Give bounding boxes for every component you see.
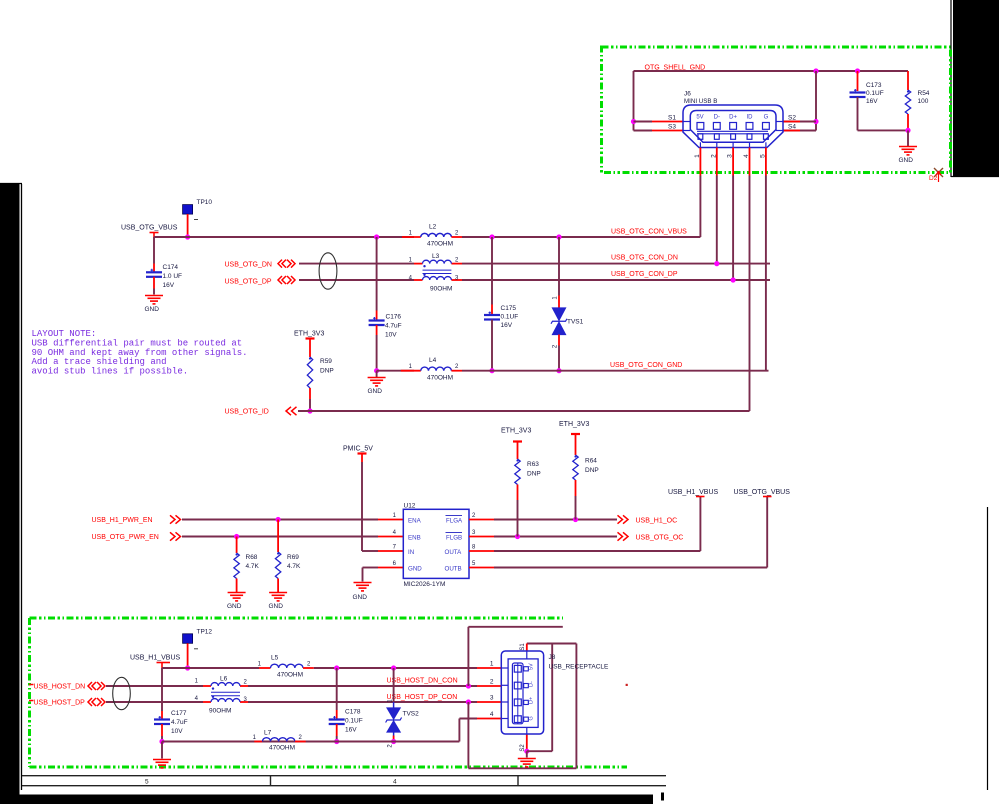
junction R63 on FLGB row bbox=[515, 534, 520, 539]
svg-text:L5: L5 bbox=[271, 655, 279, 662]
wire C173 bottom bbox=[857, 97, 859, 130]
svg-text:MIC2026-1YM: MIC2026-1YM bbox=[404, 581, 446, 588]
svg-text:S1: S1 bbox=[668, 115, 676, 122]
svg-text:J6: J6 bbox=[684, 91, 691, 98]
svg-text:USB_OTG_CON_GND: USB_OTG_CON_GND bbox=[610, 362, 682, 369]
junction C176 GND L4 bbox=[374, 368, 379, 373]
wire OTG_SHELL_GND horizontal bbox=[634, 70, 909, 72]
wire to J8 pin4 bbox=[459, 718, 477, 720]
stub USB_OTG_VBUS anchor bbox=[153, 233, 155, 238]
capacitor C176 bbox=[369, 321, 385, 326]
wire USB_OTG_ID row bbox=[298, 410, 750, 412]
svg-text:GND: GND bbox=[145, 306, 160, 313]
junction C176 column on VBUS row bbox=[374, 234, 379, 239]
svg-text:4.7uF: 4.7uF bbox=[171, 719, 188, 726]
pin stub C178 bottom bbox=[336, 724, 338, 736]
testpoint TP10 bbox=[183, 205, 193, 215]
wire host DN row to J8 pin2 bbox=[248, 685, 477, 687]
wire C175 column bbox=[491, 237, 493, 305]
resistor R68 column bbox=[236, 537, 238, 554]
svg-text:0.1UF: 0.1UF bbox=[501, 314, 519, 321]
wire USB_HOST_DP row bbox=[106, 701, 203, 703]
pin 3 stub of J6 bbox=[732, 148, 734, 176]
ground J8 shell bbox=[518, 759, 536, 767]
pin stub L2 pin1 bbox=[402, 236, 421, 238]
svg-text:4: 4 bbox=[490, 711, 494, 718]
svg-text:L6: L6 bbox=[220, 676, 228, 683]
ground below C176 bbox=[368, 378, 386, 386]
black margin bar bottom bbox=[0, 795, 653, 804]
inductor L7 bbox=[262, 738, 295, 742]
wire stub DN top horizontal bbox=[468, 626, 562, 628]
resistor R69 column bbox=[277, 520, 279, 553]
pin stub C175 top bbox=[491, 305, 493, 316]
svg-text:S1: S1 bbox=[520, 643, 526, 651]
port symbol USB_OTG_OC bbox=[618, 532, 629, 540]
wire C177 to ground bbox=[161, 742, 163, 759]
junction DP shell stub bbox=[466, 699, 471, 704]
wire host VBUS row to J8 pin1 bbox=[314, 667, 477, 669]
common-mode choke L3 bbox=[423, 260, 452, 280]
svg-text:ETH_3V3: ETH_3V3 bbox=[559, 421, 589, 428]
wire U12 GND down bbox=[362, 568, 364, 582]
port symbol USB_OTG_PWR_EN bbox=[170, 532, 181, 540]
pin 2 stub of J6 bbox=[716, 148, 718, 176]
pin stub R69 bottom bbox=[277, 579, 279, 593]
svg-text:R54: R54 bbox=[918, 90, 930, 97]
svg-text:U12: U12 bbox=[404, 503, 416, 510]
tick mark near TP10 bbox=[194, 219, 198, 221]
junction TVS1 on VBUS row bbox=[556, 234, 561, 239]
junction C178 on VBUS row bbox=[334, 665, 339, 670]
junction R59 on ID row bbox=[307, 408, 312, 413]
ground below C174 bbox=[145, 296, 163, 304]
net anchor USB_OTG_VBUS bbox=[150, 232, 159, 234]
net anchor tick USB_HOST_DN bbox=[29, 684, 34, 686]
pin S3 stub bbox=[652, 130, 683, 132]
pin stub R63 top bbox=[517, 442, 519, 460]
pin stub ENA bbox=[378, 519, 403, 521]
pin stub R64 bottom bbox=[575, 480, 577, 496]
svg-text:MINI USB B: MINI USB B bbox=[684, 98, 717, 105]
TVS diode TVS1 bbox=[551, 308, 567, 335]
pin stub R64 top bbox=[575, 434, 577, 455]
net anchor USB_H1_VBUS bbox=[696, 496, 705, 498]
resistor R59 bbox=[307, 357, 312, 388]
wire OUTA riser bbox=[699, 497, 701, 551]
power tap ETH_3V3 R64 bbox=[571, 433, 580, 435]
svg-text:10V: 10V bbox=[171, 728, 183, 735]
wire shell right vertical bbox=[815, 71, 817, 131]
wire S2 loop up bbox=[551, 644, 553, 752]
wire C176 to GND row bbox=[376, 335, 378, 371]
pin stub TVS1 top bbox=[558, 296, 560, 309]
pin stub C178 top bbox=[336, 710, 338, 720]
wire C177 lower bbox=[161, 736, 163, 742]
pin stub TP12 bbox=[187, 643, 189, 668]
svg-text:16V: 16V bbox=[501, 322, 513, 329]
svg-text:GND: GND bbox=[899, 157, 914, 164]
svg-text:ETH_3V3: ETH_3V3 bbox=[294, 331, 324, 338]
wire DP row to J6 pin3 bbox=[462, 279, 770, 281]
sheet edge line top-right bbox=[951, 0, 999, 177]
wire from S2 pin bbox=[783, 121, 816, 123]
junction S2 shell bbox=[524, 749, 529, 754]
junction TVS1 on GND row bbox=[556, 368, 561, 373]
wire host VBUS row bbox=[162, 667, 259, 669]
svg-text:TVS1: TVS1 bbox=[567, 319, 584, 326]
pin label FLGB bbox=[446, 532, 463, 534]
wire R64 to FLGA row bbox=[575, 496, 577, 520]
sheet edge line bottom-right bbox=[987, 507, 989, 790]
svg-text:USB_OTG_DP: USB_OTG_DP bbox=[225, 279, 272, 286]
svg-text:USB_OTG_VBUS: USB_OTG_VBUS bbox=[121, 225, 178, 232]
wire DP shell stub down bbox=[467, 702, 469, 768]
wire C174 to ground bbox=[153, 289, 155, 295]
wire to GND of shell bbox=[907, 130, 909, 146]
ground U12 bbox=[354, 583, 372, 591]
svg-text:ENB: ENB bbox=[408, 534, 421, 541]
ground R68 bbox=[228, 593, 246, 601]
pin stub TP10 bbox=[187, 214, 189, 237]
svg-text:D-: D- bbox=[529, 681, 535, 687]
pin stub R54 bottom bbox=[907, 114, 909, 130]
pin stub ENB bbox=[378, 536, 403, 538]
pin stub FLGB bbox=[469, 536, 494, 538]
svg-text:GND: GND bbox=[408, 565, 422, 572]
resistor R63 bbox=[515, 459, 520, 485]
ground shell GND bbox=[899, 147, 917, 155]
pin S4 stub bbox=[783, 130, 800, 132]
svg-text:C175: C175 bbox=[501, 305, 517, 312]
pin stub C173 top bbox=[857, 71, 859, 91]
connector J6 MINI USB B bbox=[683, 105, 783, 148]
svg-text:FLGB: FLGB bbox=[446, 534, 462, 541]
svg-text:ENA: ENA bbox=[408, 517, 422, 524]
svg-text:0.1UF: 0.1UF bbox=[345, 718, 363, 725]
pin stub L5 pin2 bbox=[303, 667, 314, 669]
svg-text:G: G bbox=[529, 716, 535, 720]
wire FLGA row bbox=[494, 519, 617, 521]
wire OUTA row bbox=[494, 550, 700, 552]
wire USB_OTG_DP row bbox=[299, 279, 414, 281]
svg-text:USB_OTG_ID: USB_OTG_ID bbox=[225, 409, 269, 416]
svg-text:GND: GND bbox=[269, 603, 284, 610]
svg-text:4.7uF: 4.7uF bbox=[385, 323, 402, 330]
wire shell left vertical bbox=[633, 71, 635, 131]
wire FLGB row bbox=[494, 536, 617, 538]
wire OUTB riser bbox=[766, 497, 768, 568]
junction TVS2 bottom bbox=[391, 739, 396, 744]
wire GND row to J6 pin5 bbox=[462, 370, 769, 372]
junction DN shell stub bbox=[466, 683, 471, 688]
off-page marker X at D2 corner bbox=[934, 168, 943, 177]
port symbol USB_OTG_ID bbox=[286, 407, 297, 415]
junction TP12 on VBUS row bbox=[185, 665, 190, 670]
pin stub R54 top bbox=[907, 71, 909, 90]
wire C176 column bbox=[376, 237, 378, 311]
power tap ETH_3V3 R59 bbox=[306, 337, 315, 339]
wire VBUS row to J6 pin1 bbox=[462, 236, 700, 238]
pin stub FLGA bbox=[469, 519, 494, 521]
wire PMIC_5V stub bbox=[361, 454, 363, 463]
pin stub C176 bottom bbox=[376, 325, 378, 335]
power tap ETH_3V3 R63 bbox=[513, 440, 522, 442]
ground below C177 bbox=[153, 760, 171, 768]
wire shell bottom horizontal bbox=[468, 767, 576, 769]
wire USB_OTG_VBUS row bbox=[154, 236, 414, 238]
svg-text:R68: R68 bbox=[246, 554, 258, 561]
svg-text:5V: 5V bbox=[696, 115, 703, 121]
wire USB_OTG_DN row bbox=[299, 263, 414, 265]
green dashed box D2 (OTG mini-USB section) bbox=[602, 47, 951, 173]
pin stub L3 pin4 bbox=[414, 279, 423, 281]
pin stub L6 pin2 bbox=[240, 685, 248, 687]
svg-text:USB_OTG_CON_DN: USB_OTG_CON_DN bbox=[611, 255, 678, 262]
port symbol USB_OTG_DP bbox=[278, 276, 295, 284]
wire to S1 pin bbox=[634, 121, 653, 123]
port symbol USB_HOST_DP bbox=[88, 698, 105, 706]
pin stub J8 pin1 bbox=[477, 667, 501, 669]
resistor R64 bbox=[573, 455, 578, 480]
power tap PMIC_5V bbox=[358, 452, 367, 454]
pin stub L2 pin2 bbox=[451, 236, 462, 238]
pin stub R59 top bbox=[309, 339, 311, 358]
svg-text:4.7K: 4.7K bbox=[287, 563, 301, 570]
pin S2 stub bbox=[783, 121, 800, 123]
svg-text:S3: S3 bbox=[668, 124, 676, 131]
svg-text:100: 100 bbox=[918, 98, 929, 105]
junction at S2 bbox=[813, 119, 818, 124]
wire shell top to S1 bbox=[527, 643, 577, 645]
svg-text:C177: C177 bbox=[171, 710, 187, 717]
svg-text:R69: R69 bbox=[287, 554, 299, 561]
TVS diode TVS2 bbox=[386, 708, 402, 732]
junction pin2 on DN row bbox=[714, 261, 719, 266]
pin label FLGA bbox=[446, 515, 463, 517]
pin stub R59 bottom bbox=[309, 388, 311, 399]
pin S1 stub bbox=[652, 121, 683, 123]
svg-text:USB_OTG_OC: USB_OTG_OC bbox=[636, 535, 684, 542]
wire OUTB row bbox=[494, 567, 767, 569]
pin stub L7 pin2 bbox=[295, 741, 306, 743]
svg-text:C178: C178 bbox=[345, 709, 361, 716]
capacitor C175 bbox=[484, 315, 500, 320]
IC U12 MIC2026-1YM body bbox=[403, 509, 469, 578]
wire C173 to R54 bottom bbox=[858, 129, 909, 131]
svg-text:5V: 5V bbox=[529, 663, 535, 670]
svg-text:90OHM: 90OHM bbox=[430, 286, 452, 293]
inductor L5 bbox=[271, 664, 304, 668]
svg-text:L3: L3 bbox=[432, 253, 440, 260]
pin stub C176 top bbox=[376, 311, 378, 321]
svg-text:2: 2 bbox=[490, 679, 494, 686]
pin stub S1 J8 bbox=[526, 644, 528, 652]
svg-text:USB_H1_VBUS: USB_H1_VBUS bbox=[130, 655, 181, 662]
wire C178 column bbox=[336, 668, 338, 710]
wire host GND row bbox=[162, 741, 459, 743]
wire J6 pin3 to DP row bbox=[732, 176, 734, 281]
wire TVS2 column top bbox=[393, 668, 395, 702]
ground R69 bbox=[269, 593, 287, 601]
svg-text:90OHM: 90OHM bbox=[209, 708, 231, 715]
port symbol USB_H1_OC bbox=[618, 515, 629, 523]
svg-text:USB_H1_OC: USB_H1_OC bbox=[636, 518, 678, 525]
junction shell top at S2 column bbox=[813, 68, 818, 73]
black margin bar left bbox=[0, 183, 20, 804]
svg-text:GND: GND bbox=[227, 603, 242, 610]
pin stub L3 pin3 bbox=[451, 279, 462, 281]
pin 1 stub of J6 bbox=[699, 148, 701, 176]
wire ENB row bbox=[182, 536, 378, 538]
svg-text:USB_H1_VBUS: USB_H1_VBUS bbox=[668, 489, 719, 496]
svg-text:16V: 16V bbox=[163, 282, 175, 289]
svg-text:470OHM: 470OHM bbox=[277, 672, 303, 679]
pin stub C177 bottom bbox=[161, 724, 163, 736]
capacitor C178 bbox=[329, 720, 345, 725]
svg-text:16V: 16V bbox=[866, 98, 878, 105]
resistor R69 bbox=[275, 552, 280, 579]
pin stub C174 bottom bbox=[153, 277, 155, 289]
svg-text:L2: L2 bbox=[429, 224, 437, 231]
capacitor C177 bbox=[154, 720, 170, 725]
wire to ground C176 bbox=[376, 371, 378, 377]
layout note text bbox=[32, 329, 248, 377]
pin stub TVS2 bottom bbox=[393, 736, 395, 742]
wire from S4 pin bbox=[783, 130, 816, 132]
pin stub L7 pin1 bbox=[254, 741, 262, 743]
stub USB_H1_VBUS anchor bottom bbox=[161, 663, 163, 669]
wire R63 to FLGB row bbox=[517, 500, 519, 537]
svg-text:DNP: DNP bbox=[320, 368, 334, 375]
wire C178 lower bbox=[336, 736, 338, 742]
pin stub R63 bottom bbox=[517, 485, 519, 501]
svg-text:G: G bbox=[764, 115, 769, 121]
junction pin3 on DP row bbox=[731, 277, 736, 282]
svg-text:J8: J8 bbox=[549, 654, 556, 661]
pin stub J8 pin2 bbox=[477, 685, 501, 687]
capacitor C174 wire top bbox=[153, 237, 155, 264]
pin stub OUTB bbox=[469, 567, 494, 569]
svg-text:C174: C174 bbox=[163, 264, 179, 271]
junction at S1 bbox=[631, 119, 636, 124]
junction C178 bottom bbox=[334, 739, 339, 744]
svg-text:USB_OTG_VBUS: USB_OTG_VBUS bbox=[734, 489, 791, 496]
green dashed box USB host section bbox=[30, 618, 628, 767]
pin stub L4 pin2 bbox=[451, 370, 462, 372]
pin stub C177 top bbox=[161, 711, 163, 720]
pin stub GND U12 bbox=[378, 567, 403, 569]
wire GND pin U12 bbox=[363, 567, 379, 569]
junction C175 on GND row bbox=[489, 368, 494, 373]
pin stub L3 pin2 bbox=[451, 263, 462, 265]
wire J6 pin1 to VBUS row bbox=[699, 176, 701, 238]
svg-text:USB_OTG_PWR_EN: USB_OTG_PWR_EN bbox=[92, 534, 159, 541]
svg-text:GND: GND bbox=[368, 388, 383, 395]
svg-text:R63: R63 bbox=[527, 461, 539, 468]
sheet border zone strip bottom bbox=[22, 776, 666, 786]
svg-text:USB_OTG_DN: USB_OTG_DN bbox=[225, 262, 272, 269]
common-mode choke L6 bbox=[211, 683, 240, 702]
shield ellipse around host pair bbox=[113, 677, 131, 709]
svg-text:C173: C173 bbox=[866, 82, 882, 89]
wire shell right vertical J8 bbox=[575, 644, 577, 769]
net anchor tick USB_HOST_DP bbox=[29, 700, 34, 702]
svg-text:GND: GND bbox=[353, 594, 368, 601]
svg-text:USB_HOST_DN_CON: USB_HOST_DN_CON bbox=[387, 678, 458, 685]
svg-text:OUTA: OUTA bbox=[445, 549, 463, 556]
svg-text:PMIC_5V: PMIC_5V bbox=[343, 446, 373, 453]
junction R64 on FLGA row bbox=[573, 517, 578, 522]
wire R59 to ID row bbox=[309, 399, 311, 411]
svg-text:USB_OTG_CON_DP: USB_OTG_CON_DP bbox=[611, 271, 678, 278]
pin stub IN bbox=[378, 550, 403, 552]
testpoint TP12 bbox=[183, 634, 193, 644]
off-page reference D2 arrow bbox=[936, 172, 941, 183]
black margin bar top-right bbox=[953, 0, 999, 177]
svg-text:ID: ID bbox=[747, 115, 754, 121]
svg-text:4: 4 bbox=[393, 779, 397, 786]
pin stub R68 bottom bbox=[236, 579, 238, 593]
svg-text:S2: S2 bbox=[788, 115, 796, 122]
junction C177 bottom bbox=[159, 739, 164, 744]
svg-text:DNP: DNP bbox=[585, 467, 599, 474]
svg-text:R59: R59 bbox=[320, 358, 332, 365]
net anchor USB_H1_VBUS bottom bbox=[157, 662, 171, 664]
svg-text:0.1UF: 0.1UF bbox=[866, 90, 884, 97]
wire J6 pin5 to GND row bbox=[765, 176, 767, 371]
wire C177 column bbox=[161, 668, 163, 711]
lead TVS2 bottom bbox=[393, 732, 395, 736]
sheet edge line left bbox=[0, 184, 22, 791]
svg-text:USB_OTG_CON_VBUS: USB_OTG_CON_VBUS bbox=[611, 229, 687, 236]
svg-text:5: 5 bbox=[145, 779, 149, 786]
resistor R54 bbox=[905, 90, 910, 114]
wire C175 bottom bbox=[491, 320, 493, 371]
svg-text:R64: R64 bbox=[585, 458, 597, 465]
svg-text:D2: D2 bbox=[929, 175, 938, 182]
connector J8 USB_RECEPTACLE bbox=[501, 651, 543, 734]
svg-text:USB_RECEPTACLE: USB_RECEPTACLE bbox=[549, 664, 610, 671]
svg-text:TP12: TP12 bbox=[197, 629, 213, 636]
pin 4 stub of J6 bbox=[749, 148, 751, 176]
svg-text:D+: D+ bbox=[729, 115, 737, 121]
pin stub S2 J8 bbox=[526, 734, 528, 751]
pin stub L5 pin1 bbox=[259, 667, 271, 669]
net anchor USB_OTG_VBUS bbox=[763, 496, 772, 498]
wire GND row to L4 bbox=[377, 370, 414, 372]
wire host DP row to J8 pin3 bbox=[248, 701, 477, 703]
inductor L2 bbox=[421, 233, 452, 237]
svg-text:TP10: TP10 bbox=[197, 199, 213, 206]
svg-text:FLGA: FLGA bbox=[446, 517, 463, 524]
shield ellipse around OTG pair bbox=[319, 253, 337, 289]
port symbol USB_H1_PWR_EN bbox=[170, 515, 181, 523]
pin stub L4 pin1 bbox=[401, 370, 421, 372]
svg-text:L7: L7 bbox=[264, 730, 272, 737]
junction R69 on ENA row bbox=[276, 517, 281, 522]
wire TVS1 column bottom bbox=[558, 346, 560, 371]
port symbol USB_HOST_DN bbox=[88, 682, 105, 690]
port symbol USB_OTG_DN bbox=[278, 260, 295, 268]
svg-text:470OHM: 470OHM bbox=[427, 241, 453, 248]
junction R68 on ENB row bbox=[234, 534, 239, 539]
svg-text:USB_H1_PWR_EN: USB_H1_PWR_EN bbox=[92, 517, 153, 524]
wire PMIC_5V down bbox=[361, 462, 363, 551]
wire stub DN up bbox=[467, 627, 469, 686]
svg-text:D+: D+ bbox=[529, 697, 535, 704]
junction C175 on VBUS row bbox=[489, 234, 494, 239]
